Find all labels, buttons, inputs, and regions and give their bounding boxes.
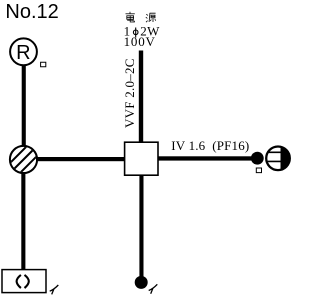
- wire joint box to outlet box (horizontal): [36, 157, 125, 161]
- wire outlet box down to switch I: [139, 175, 143, 278]
- svg-text:100V: 100V: [124, 34, 156, 49]
- kanji GEN (source): [146, 13, 156, 22]
- kanji DEN (electric): [126, 12, 135, 22]
- label RO (katakana) for receptacle: [41, 62, 46, 66]
- wire joint box down to ceiling rose: [21, 172, 25, 270]
- ceiling rose (square type): [2, 270, 46, 293]
- power feed wire (vertical): [139, 51, 143, 143]
- switch I (dot): [135, 276, 148, 289]
- joint box (hatched circle): [10, 143, 38, 175]
- wall outlet (circle, wall side filled): [265, 145, 293, 172]
- outlet box: [125, 142, 158, 175]
- label I (katakana) for switch: [149, 284, 158, 293]
- switch RO (dot): [251, 152, 264, 165]
- lamp receptacle R: [10, 38, 37, 65]
- wire receptacle to joint box: [22, 65, 26, 146]
- power source label: [124, 12, 160, 49]
- label I for ceiling rose: [50, 285, 59, 294]
- label RO for switch: [256, 168, 261, 173]
- wire outlet box to switch RO / outlet (horizontal): [158, 156, 256, 160]
- svg-text:VVF 2.0–2C: VVF 2.0–2C: [122, 58, 137, 128]
- svg-text:IV 1.6 (PF16): IV 1.6 (PF16): [171, 138, 249, 153]
- svg-text:No.12: No.12: [5, 1, 58, 23]
- svg-text:R: R: [16, 42, 30, 64]
